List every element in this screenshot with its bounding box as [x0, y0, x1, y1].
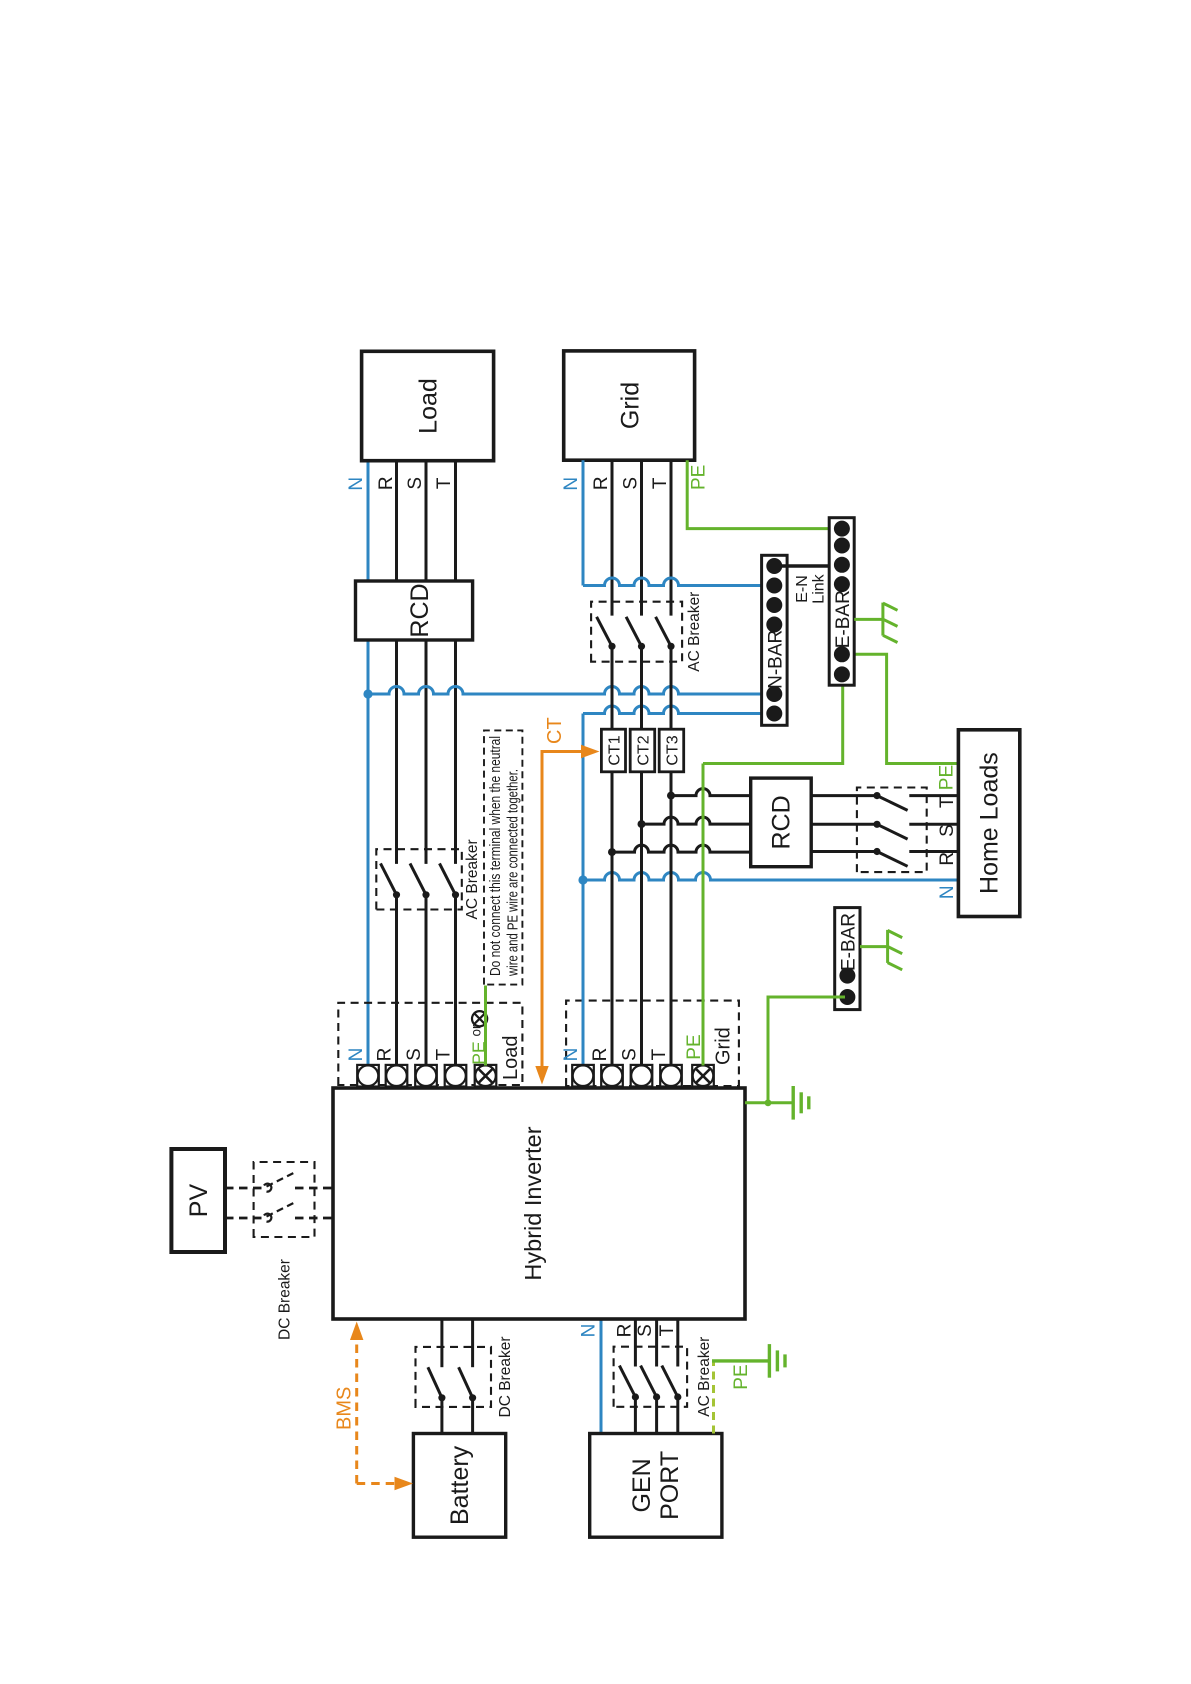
wire grid N terminal to N-BAR (blue): [582, 714, 585, 1066]
BMS link (orange dashed): [355, 1332, 358, 1484]
load terminal group dashed box: [338, 1003, 522, 1085]
wire grid R: [611, 646, 614, 1065]
svg-text:CT1: CT1: [607, 735, 624, 765]
E-BAR main ground stem: [854, 618, 883, 621]
wire grid S: [640, 646, 643, 1065]
svg-text:PORT: PORT: [656, 1451, 684, 1520]
AC breaker switch grid T: [656, 617, 671, 647]
svg-text:N: N: [346, 1048, 367, 1062]
RCD load box: [356, 581, 473, 640]
earth ground (inverter PE): [792, 1086, 795, 1120]
E-N link wire: [774, 564, 842, 567]
AC breaker switch grid R: [597, 617, 612, 647]
AC breaker (home) dashed box: [857, 788, 927, 873]
AC breaker switch load T: [440, 863, 456, 894]
svg-text:Battery: Battery: [446, 1445, 474, 1525]
svg-text:R: R: [591, 476, 612, 490]
svg-text:Do not connect this terminal w: Do not connect this terminal when the ne…: [487, 736, 504, 976]
DC breaker (PV) dashed box: [254, 1162, 315, 1237]
wire PV- (dashed): [225, 1217, 262, 1220]
junction grid S to RCD: [638, 820, 646, 828]
terminal grid R: [601, 1065, 623, 1087]
svg-text:RCD: RCD: [768, 795, 796, 849]
svg-text:N: N: [561, 477, 582, 491]
svg-text:Hybrid Inverter: Hybrid Inverter: [520, 1126, 546, 1280]
CT1: [605, 732, 624, 769]
svg-text:E-BAR: E-BAR: [839, 913, 860, 971]
svg-text:S: S: [404, 1048, 425, 1061]
svg-text:PV: PV: [185, 1184, 213, 1218]
GEN PORT box: [590, 1434, 722, 1538]
svg-text:R: R: [376, 476, 397, 490]
svg-text:Link: Link: [811, 573, 828, 603]
AC breaker switch home S: [877, 824, 908, 839]
junction grid R to RCD: [608, 848, 616, 856]
svg-text:AC Breaker: AC Breaker: [464, 839, 481, 919]
AC breaker switch home T: [877, 796, 908, 811]
PV array box: [171, 1149, 225, 1252]
terminal grid S: [631, 1065, 653, 1087]
svg-text:CT3: CT3: [665, 735, 682, 765]
AC breaker (gen) dashed box: [614, 1347, 688, 1407]
terminal grid N: [572, 1065, 594, 1087]
wire load T: [454, 895, 457, 1066]
wire load R: [395, 895, 398, 1066]
svg-text:N: N: [937, 885, 958, 899]
wire E-BAR second to inverter PE (green): [768, 997, 845, 1101]
svg-text:Grid: Grid: [713, 1027, 735, 1065]
svg-text:S: S: [405, 477, 426, 490]
terminal load S: [415, 1065, 437, 1087]
svg-text:wire and PE wire are connected: wire and PE wire are connected together.: [505, 769, 522, 977]
svg-text:AC Breaker: AC Breaker: [686, 592, 703, 672]
load box: [362, 351, 494, 460]
AC breaker switch load S: [410, 863, 426, 894]
svg-text:R: R: [590, 1048, 611, 1062]
svg-text:T: T: [649, 1048, 670, 1060]
AC breaker switch gen S: [641, 1366, 657, 1397]
AC breaker switch grid S: [626, 617, 641, 647]
wire grid N from grid box (blue): [582, 460, 585, 585]
CT2: [630, 729, 655, 772]
AC breaker switch load R: [381, 863, 397, 894]
CT3: [659, 729, 684, 772]
wire PE home loads from E-BAR (green): [849, 654, 958, 763]
GEN PORT wire S: [655, 1397, 658, 1434]
svg-text:Load: Load: [415, 378, 443, 434]
PE wire gen to earth: [712, 1359, 769, 1362]
svg-text:Grid: Grid: [617, 382, 645, 429]
terminal grid T: [660, 1065, 682, 1087]
junction green PE: [765, 1099, 772, 1106]
junction grid N to home loads: [578, 875, 587, 884]
inverter PE stem to earth: [745, 1101, 793, 1104]
N-BAR bus bar: [762, 555, 788, 725]
grid box: [564, 351, 695, 460]
PE wire gen (dashed): [712, 1361, 715, 1434]
svg-text:CT: CT: [544, 717, 566, 744]
svg-text:E-BAR: E-BAR: [833, 590, 854, 648]
wire grid R to RCD home: [612, 845, 751, 852]
svg-text:N: N: [561, 1048, 582, 1062]
AC breaker (load) dashed box: [376, 849, 462, 909]
svg-text:GEN: GEN: [628, 1458, 656, 1512]
wire home S: [811, 823, 877, 826]
wire PV+ (dashed): [225, 1187, 262, 1190]
terminal note dashed box: [484, 730, 522, 984]
earth ground (gen PE): [768, 1344, 771, 1378]
svg-text:S: S: [621, 477, 642, 490]
AC breaker (grid) dashed box: [591, 602, 682, 662]
svg-text:CT2: CT2: [636, 735, 653, 765]
chassis ground (E-BAR second): [886, 930, 889, 963]
wire load N (blue): [367, 461, 370, 1066]
svg-text:PE: PE: [937, 765, 958, 790]
terminal load PE: [475, 1065, 497, 1087]
wire grid PE to E-BAR and home loads (green): [702, 764, 705, 1066]
DC breaker (battery) dashed box: [416, 1347, 492, 1407]
DC breaker switch battery +: [428, 1367, 442, 1398]
E-BAR second ground stem: [860, 945, 888, 948]
CT sense line (orange): [542, 752, 594, 1077]
svg-text:RCD: RCD: [406, 583, 434, 637]
home loads box: [958, 730, 1019, 917]
chassis ground (E-BAR main): [881, 603, 884, 636]
terminal load T: [445, 1065, 467, 1087]
hybrid inverter U1: [333, 1088, 745, 1319]
svg-text:PE: PE: [731, 1364, 752, 1389]
terminal grid PE: [692, 1065, 714, 1087]
svg-text:R: R: [937, 852, 958, 866]
E-BAR second bus bar: [835, 908, 860, 1010]
junction load N to N-BAR: [363, 689, 372, 698]
svg-text:DC Breaker: DC Breaker: [277, 1259, 294, 1340]
DC breaker switch battery -: [459, 1367, 473, 1398]
GEN PORT wire N: [600, 1319, 603, 1434]
svg-text:DC Breaker: DC Breaker: [497, 1337, 514, 1418]
battery wire +: [440, 1398, 443, 1434]
battery box: [413, 1434, 505, 1538]
GEN PORT wire R: [634, 1397, 637, 1434]
svg-text:N: N: [579, 1324, 600, 1338]
AC breaker switch home R: [877, 852, 908, 867]
GEN PORT wire T: [676, 1397, 679, 1434]
svg-text:PE: PE: [689, 465, 710, 490]
E-BAR main bus bar: [829, 518, 854, 686]
svg-text:BMS: BMS: [334, 1387, 356, 1430]
DC breaker switch PV+: [264, 1184, 271, 1192]
RCD home box: [751, 778, 812, 867]
svg-text:N: N: [346, 477, 367, 491]
svg-text:T: T: [937, 796, 958, 808]
wire home R (RCD to breaker): [811, 850, 877, 853]
AC breaker switch gen T: [662, 1366, 678, 1397]
svg-text:E-N: E-N: [794, 575, 811, 603]
battery wire -: [471, 1398, 474, 1434]
svg-text:R: R: [615, 1324, 636, 1338]
wire N link load-side to N-BAR (blue): [368, 687, 767, 695]
wire load S: [425, 895, 428, 1066]
AC breaker switch gen R: [619, 1366, 635, 1397]
wire grid T: [670, 646, 673, 1065]
svg-text:S: S: [635, 1324, 656, 1337]
DC breaker switch PV-: [264, 1214, 271, 1222]
svg-text:AC Breaker: AC Breaker: [696, 1337, 713, 1417]
terminal load N: [357, 1065, 379, 1087]
wire N to home loads (blue): [583, 872, 958, 880]
svg-text:Home Loads: Home Loads: [976, 752, 1004, 894]
svg-text:T: T: [434, 1048, 455, 1060]
svg-text:Load: Load: [500, 1036, 522, 1081]
wire PE grid box to E-BAR (green): [687, 460, 834, 528]
svg-text:S: S: [620, 1048, 641, 1061]
svg-text:T: T: [650, 477, 671, 489]
svg-text:N-BAR: N-BAR: [766, 630, 787, 689]
wire load PE stub (green): [484, 986, 487, 1066]
terminal load R: [386, 1065, 408, 1087]
junction grid T to RCD: [667, 792, 675, 800]
wire grid T to RCD home: [671, 789, 751, 796]
svg-text:T: T: [657, 1324, 678, 1336]
svg-text:T: T: [434, 477, 455, 489]
wire home T: [811, 794, 877, 797]
grid terminal group dashed box: [566, 1001, 739, 1086]
svg-text:S: S: [937, 824, 958, 837]
svg-text:R: R: [375, 1048, 396, 1062]
wire grid S to RCD home: [642, 817, 751, 824]
